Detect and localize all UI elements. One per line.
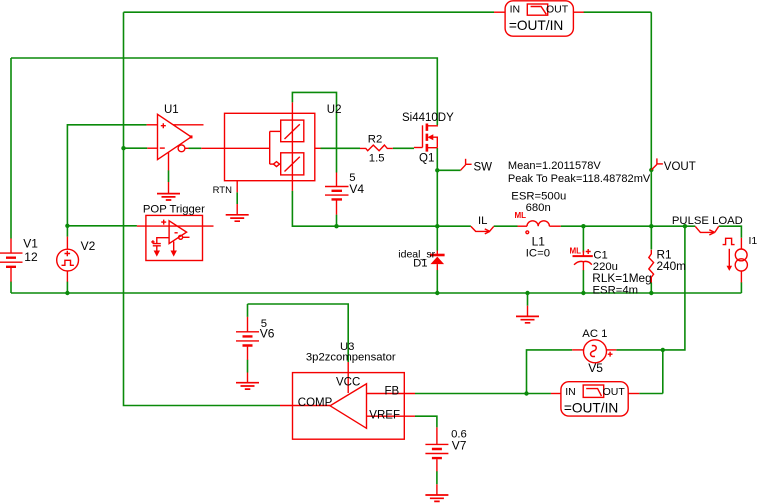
svg-text:V6: V6 (260, 327, 275, 341)
wire U1 gnd (168, 170, 170, 182)
wire V2 bottom (66, 282, 68, 294)
wire V4 bottom (336, 215, 338, 227)
svg-text:C1: C1 (593, 250, 607, 262)
svg-text:VOUT: VOUT (664, 161, 696, 173)
pulse source V2 (57, 237, 79, 282)
wire U2 VCC to V4 (292, 92, 336, 172)
svg-text:=OUT/IN: =OUT/IN (564, 401, 618, 416)
op-amp U1 (147, 114, 204, 170)
svg-text:OUT: OUT (546, 4, 569, 16)
node SW junction (435, 224, 439, 228)
svg-text:=OUT/IN: =OUT/IN (509, 18, 563, 33)
wire 12V input rail (11, 58, 437, 125)
wire Q1 source to SW node (436, 148, 438, 251)
wire U2 bottom return (292, 191, 437, 226)
svg-text:VCC: VCC (336, 376, 360, 388)
wire U1 plus input (67, 125, 146, 237)
node C1 top junction (581, 224, 585, 228)
wire V7 bottom (436, 471, 438, 484)
node SW probe junction (435, 168, 439, 172)
wire COMP feedback vertical (124, 12, 281, 405)
wire R1 bottom lead to ground rail (650, 283, 652, 294)
wire V5 plus side (616, 350, 663, 394)
svg-text:Si4410DY: Si4410DY (402, 112, 454, 124)
node VOUT/wire junction (649, 224, 653, 228)
svg-text:12: 12 (24, 250, 38, 264)
svg-text:POP Trigger: POP Trigger (143, 204, 205, 216)
probe IL (471, 226, 494, 234)
resistor R2 (360, 145, 393, 151)
svg-text:SW: SW (474, 161, 493, 173)
wire VOUT sense down (663, 226, 685, 350)
driver block U2 (201, 102, 320, 192)
svg-text:COMP: COMP (298, 397, 333, 409)
svg-text:IN: IN (565, 386, 576, 398)
svg-text:VREF: VREF (369, 409, 400, 421)
wire U1 output to U2 (189, 147, 202, 149)
svg-text:FB: FB (385, 385, 400, 397)
wire top block output to VOUT rail (584, 11, 652, 13)
wire U2 out to R2 (321, 147, 361, 149)
ground below V6 (236, 373, 259, 390)
wire IL to L1 (494, 225, 518, 227)
node V2 gnd junction (65, 291, 69, 295)
inductor L1 (518, 221, 561, 234)
wire gnd stub on rail (527, 293, 529, 306)
svg-text:V7: V7 (452, 439, 467, 453)
ground below V7 (425, 484, 448, 501)
svg-text:R2: R2 (368, 134, 382, 146)
ground below U1 (157, 182, 180, 200)
battery V6 (236, 317, 259, 360)
wire V5 minus side (527, 350, 573, 394)
C1 plus marker (586, 249, 591, 254)
node V4 return junction (334, 224, 338, 228)
ground RTN (226, 204, 249, 221)
svg-text:RLK=1Meg: RLK=1Meg (592, 271, 651, 285)
wire R1 top (650, 226, 652, 249)
node R1 gnd junction (649, 291, 653, 295)
transistor Q1 (414, 124, 437, 152)
wire SW to IL (437, 225, 471, 227)
probe PULSE LOAD (695, 226, 718, 235)
wire FB line (415, 393, 551, 395)
svg-text:IL: IL (478, 215, 487, 227)
wire D1 bottom (436, 270, 438, 293)
svg-text:ESR=500u: ESR=500u (511, 190, 566, 202)
wire POP trigger input (67, 225, 136, 227)
wire U1 minus input (124, 147, 148, 149)
wire V6 top (247, 304, 249, 317)
wire I1 bottom (740, 282, 742, 293)
node rail gnd junction (525, 291, 529, 295)
svg-text:V1: V1 (23, 237, 38, 251)
node D1 gnd junction (435, 291, 439, 295)
svg-text:AC 1: AC 1 (582, 328, 607, 340)
wire top COMP to top block (124, 11, 495, 13)
diode D1 (430, 251, 445, 271)
wire V1 top (10, 58, 12, 239)
wire L1 to output node (561, 225, 696, 227)
wire V1 bottom (10, 282, 12, 294)
svg-text:3p2zcompensator: 3p2zcompensator (306, 352, 396, 364)
wire output node to I1 (719, 226, 742, 238)
node minus input junction (121, 146, 125, 150)
wire SW probe stub (437, 169, 460, 171)
wire C1 bottom (582, 270, 584, 293)
svg-text:240m: 240m (657, 259, 687, 273)
resistor R1 (649, 250, 654, 283)
wire V6 to U3 VCC (248, 304, 349, 362)
svg-text:ML: ML (570, 247, 582, 256)
svg-text:PULSE LOAD: PULSE LOAD (672, 215, 743, 227)
wire bottom block output (639, 393, 663, 395)
svg-text:V2: V2 (81, 239, 96, 253)
svg-text:IN: IN (510, 4, 520, 16)
wire VREF to V7 (415, 416, 437, 427)
svg-text:ML: ML (515, 211, 527, 220)
svg-text:Q1: Q1 (419, 153, 434, 165)
svg-text:ESR=4m: ESR=4m (593, 285, 639, 297)
svg-text:Peak To Peak=118.48782mV: Peak To Peak=118.48782mV (508, 173, 651, 185)
node C1 gnd junction (581, 291, 585, 295)
compensator U3 (280, 362, 415, 439)
svg-text:V4: V4 (349, 182, 364, 196)
wire VOUT rail vertical (650, 12, 652, 249)
current source I1 (723, 238, 748, 283)
node V5 plus junction (661, 348, 665, 352)
probe SW (461, 159, 472, 171)
battery V1 (0, 239, 23, 282)
wire R2 to Q1 gate (393, 147, 414, 149)
wire C1 top (582, 226, 584, 252)
pop trigger box (137, 215, 214, 260)
transfer probe top block =OUT/IN (494, 1, 584, 36)
battery V4 (325, 173, 349, 215)
wire RTN pin (236, 192, 238, 204)
svg-text:1.5: 1.5 (369, 153, 385, 165)
node VOUT probe junction (649, 168, 653, 172)
svg-text:U1: U1 (164, 104, 179, 116)
capacitor C1 (573, 251, 593, 271)
wire V6 bottom (247, 360, 249, 373)
svg-text:U2: U2 (327, 104, 342, 116)
svg-text:L1: L1 (532, 235, 546, 249)
transfer probe bottom block =OUT/IN (551, 382, 639, 416)
probe VOUT (651, 158, 663, 170)
svg-text:D1: D1 (413, 258, 427, 270)
wire ground rail (11, 292, 741, 294)
svg-text:V5: V5 (588, 361, 603, 375)
battery V7 (425, 427, 448, 471)
ground rail symbol (516, 306, 539, 323)
svg-text:680n: 680n (526, 202, 551, 214)
ac source V5 (572, 340, 616, 363)
svg-text:Mean=1.2011578V: Mean=1.2011578V (508, 160, 601, 172)
node V2/POP junction (65, 224, 69, 228)
node sense junction (683, 224, 687, 228)
svg-text:IC=0: IC=0 (526, 248, 550, 260)
svg-text:RTN: RTN (213, 185, 232, 196)
node V5 minus junction (524, 391, 528, 395)
svg-text:I1: I1 (749, 235, 757, 247)
svg-text:OUT: OUT (603, 386, 626, 398)
